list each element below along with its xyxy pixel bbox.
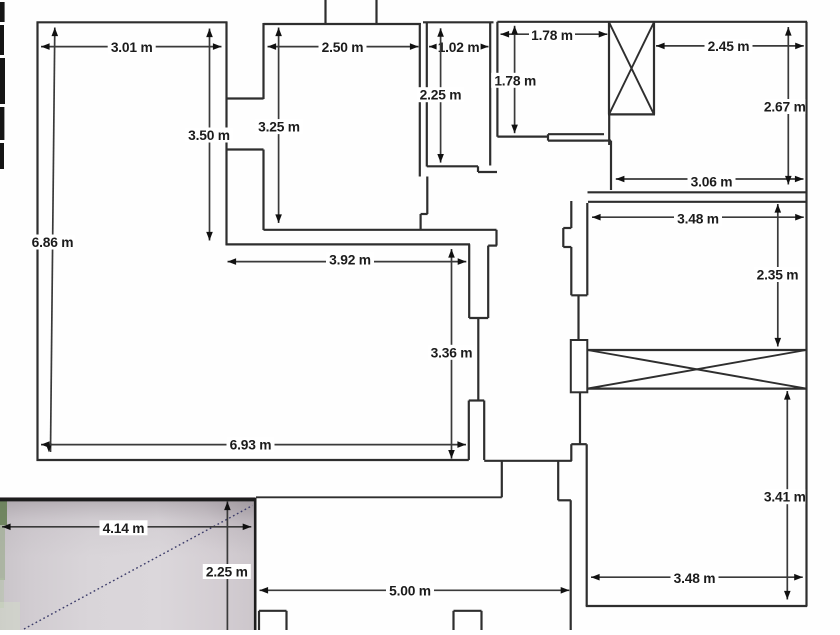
dimension 2.25 m terrace bbox=[203, 502, 251, 631]
divider wall room1/room2 bbox=[225, 22, 227, 245]
scan artefact dark strip bbox=[0, 2, 5, 169]
balcony cross strip bbox=[588, 350, 807, 389]
porch left wall bbox=[501, 461, 503, 497]
svg-text:1.78 m: 1.78 m bbox=[531, 28, 573, 43]
svg-text:2.67 m: 2.67 m bbox=[764, 100, 806, 115]
svg-text:3.48 m: 3.48 m bbox=[674, 571, 716, 586]
pillar left bbox=[258, 611, 260, 630]
dimension 3.48 m bbox=[592, 211, 804, 227]
svg-text:3.01 m: 3.01 m bbox=[111, 40, 153, 55]
lower hall bottom wall bbox=[484, 460, 572, 462]
room348 top wall lower line bbox=[588, 201, 807, 203]
svg-text:1.02 m: 1.02 m bbox=[438, 40, 480, 55]
terrace top edge bbox=[0, 498, 257, 502]
door leaf rectangle bbox=[571, 340, 588, 392]
room2 left wall upper bbox=[262, 23, 264, 99]
dimension 3.01 m bbox=[41, 39, 222, 55]
wall below stair box bbox=[608, 114, 610, 145]
living room bottom wall bbox=[37, 459, 469, 461]
wall line below column bbox=[577, 295, 579, 341]
svg-text:2.35 m: 2.35 m bbox=[757, 268, 799, 283]
dimension 3.36 m bbox=[428, 249, 476, 459]
corridor top wall bbox=[423, 21, 494, 23]
upper hollow wall column bbox=[563, 201, 587, 295]
entry notch left wall bbox=[557, 461, 559, 500]
hall wall bottom cap bbox=[469, 317, 488, 319]
dimension 3.41 m bbox=[764, 391, 806, 600]
step at hall corner bbox=[495, 230, 497, 246]
room2 top wall bbox=[264, 23, 421, 25]
wall below corridor bbox=[426, 177, 428, 215]
svg-text:4.14 m: 4.14 m bbox=[103, 521, 145, 536]
svg-text:3.41 m: 3.41 m bbox=[764, 490, 806, 505]
top-right room bottom wall bbox=[588, 191, 807, 193]
svg-text:2.50 m: 2.50 m bbox=[322, 40, 364, 55]
entry corridor left wall bbox=[570, 500, 572, 630]
top-right top wall bbox=[497, 21, 807, 23]
svg-text:3.48 m: 3.48 m bbox=[677, 212, 719, 227]
svg-text:3.06 m: 3.06 m bbox=[691, 174, 733, 189]
entry notch bottom bbox=[558, 499, 571, 501]
dimension 3.50 m bbox=[185, 29, 233, 241]
green vegetation edge bbox=[0, 499, 7, 525]
top bump left edge bbox=[324, 0, 326, 24]
door jambs to lower hall bbox=[468, 401, 470, 461]
left outer wall bbox=[36, 22, 38, 462]
svg-text:2.45 m: 2.45 m bbox=[708, 39, 750, 54]
svg-text:3.92 m: 3.92 m bbox=[329, 253, 371, 268]
hall wall left line bbox=[468, 244, 470, 318]
room2 left wall lower bbox=[262, 150, 264, 231]
doorway step upper bbox=[227, 97, 264, 99]
dimension 1.02 m bbox=[429, 40, 489, 56]
corridor right wall outer bbox=[496, 22, 498, 137]
svg-text:2.25 m: 2.25 m bbox=[420, 88, 462, 103]
dimension 3.48 m bbox=[591, 571, 803, 587]
dimension 3.06 m bbox=[616, 174, 804, 190]
porch bottom line bbox=[256, 496, 502, 498]
top wall room1 bbox=[37, 21, 228, 23]
corridor right wall inner bbox=[489, 22, 491, 166]
doorway step lower bbox=[227, 148, 264, 150]
hall wall right line bbox=[487, 246, 489, 318]
room2 right wall bbox=[419, 23, 421, 177]
corridor bottom step bbox=[427, 165, 478, 167]
dimension 1.78 m bbox=[501, 27, 608, 43]
svg-text:5.00 m: 5.00 m bbox=[389, 583, 431, 598]
bottom-right room bottom wall bbox=[586, 605, 807, 607]
svg-text:3.50 m: 3.50 m bbox=[188, 128, 230, 143]
svg-text:6.93 m: 6.93 m bbox=[230, 437, 272, 452]
dimension 6.93 m bbox=[41, 437, 466, 453]
wall above lower hollow wall bbox=[579, 392, 581, 445]
top bump right edge bbox=[375, 0, 377, 24]
lower hollow wall bbox=[570, 444, 572, 461]
dimension 5.00 m bbox=[260, 583, 570, 599]
dimension 2.35 m bbox=[754, 204, 802, 347]
dimension 4.14 m bbox=[2, 520, 251, 536]
svg-text:1.78 m: 1.78 m bbox=[494, 73, 536, 88]
stair box bbox=[608, 22, 655, 114]
dimension 2.45 m bbox=[656, 39, 804, 55]
dimension 2.67 m bbox=[764, 27, 806, 185]
dimension 6.86 m bbox=[30, 28, 76, 453]
dimension 3.25 m bbox=[255, 28, 303, 224]
dimension 1.78 m bbox=[491, 26, 539, 133]
corridor left wall bbox=[426, 22, 428, 167]
dotted diagonal sight line bbox=[24, 506, 253, 630]
entry door thick band bbox=[548, 133, 604, 135]
right outer wall bbox=[805, 22, 807, 607]
svg-text:6.86 m: 6.86 m bbox=[32, 235, 74, 250]
entry corner wall bbox=[604, 140, 611, 142]
dimension 2.25 m bbox=[417, 28, 465, 162]
entry wall horizontal bbox=[497, 136, 549, 138]
dimension 3.92 m bbox=[228, 252, 467, 268]
room2 bottom wall bbox=[264, 229, 497, 231]
living room top wall bbox=[226, 243, 471, 245]
pillar right bbox=[452, 611, 454, 630]
terrace right edge bbox=[254, 499, 257, 631]
svg-text:2.25 m: 2.25 m bbox=[206, 565, 248, 580]
svg-text:3.25 m: 3.25 m bbox=[258, 120, 300, 135]
svg-text:3.36 m: 3.36 m bbox=[431, 345, 473, 360]
hall centre wall line bbox=[477, 317, 479, 401]
dimension 2.50 m bbox=[268, 40, 419, 56]
